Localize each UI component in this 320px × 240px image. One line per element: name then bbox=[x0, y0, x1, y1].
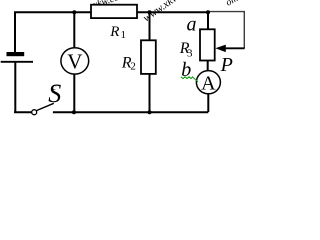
svg-text:1: 1 bbox=[121, 29, 127, 41]
svg-text:a: a bbox=[187, 13, 197, 35]
svg-text:P: P bbox=[220, 54, 233, 76]
svg-text:V: V bbox=[67, 49, 82, 73]
svg-text:A: A bbox=[201, 72, 216, 94]
svg-text:R: R bbox=[109, 24, 119, 40]
svg-text:2: 2 bbox=[130, 61, 136, 73]
svg-text:S: S bbox=[48, 79, 61, 108]
svg-text:3: 3 bbox=[187, 48, 193, 60]
